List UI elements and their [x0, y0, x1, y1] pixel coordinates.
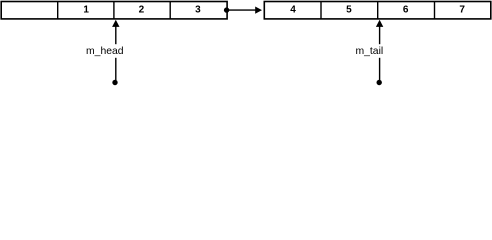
svg-text:m_head: m_head: [86, 46, 124, 57]
svg-text:7: 7: [459, 5, 465, 16]
svg-text:5: 5: [346, 5, 352, 16]
cell divider 2 (left box): [113, 2, 115, 19]
link wire to right box: [227, 9, 257, 11]
cell divider 3 (right box): [434, 2, 436, 19]
junction dot on left box right edge: [224, 7, 229, 12]
svg-text:6: 6: [403, 5, 409, 16]
cell divider 1 (right box): [320, 2, 322, 19]
cell divider 2 (right box): [377, 2, 379, 19]
right array box: [264, 2, 491, 19]
svg-text:3: 3: [195, 5, 201, 16]
cell divider 1 (left box): [57, 2, 59, 19]
m_head arrowhead (up): [112, 20, 119, 27]
m_head wire upper segment: [115, 26, 117, 44]
link arrowhead: [255, 7, 262, 14]
m_tail wire upper segment: [379, 26, 381, 44]
m_head terminal dot: [112, 80, 117, 85]
m_tail terminal dot: [377, 80, 382, 85]
cell divider 3 (left box): [169, 2, 171, 19]
m_tail arrowhead (up): [376, 20, 383, 27]
svg-text:4: 4: [290, 5, 296, 16]
m_head wire lower segment: [115, 58, 117, 81]
svg-text:2: 2: [139, 5, 145, 16]
svg-text:m_tail: m_tail: [355, 46, 383, 57]
left array box: [1, 2, 227, 19]
m_tail wire lower segment: [379, 58, 381, 81]
svg-text:1: 1: [83, 5, 89, 16]
